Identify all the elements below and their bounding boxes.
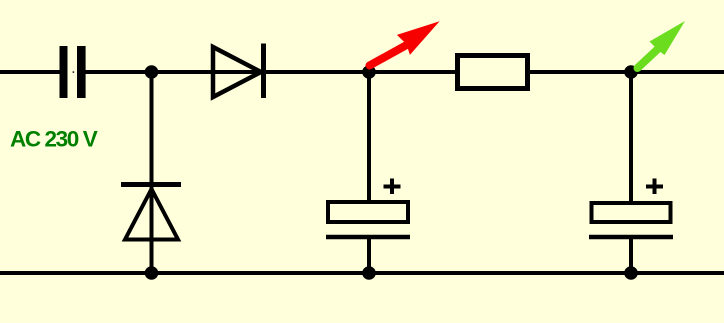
probe arrow green (output, regulated) — [638, 21, 686, 68]
wire top net: left segment to C1 — [0, 70, 60, 74]
capacitor C3 top plate — [592, 203, 671, 222]
resistor R1 — [458, 56, 528, 89]
capacitor C2 top plate — [328, 202, 408, 222]
wire top net: R1 to right edge — [530, 70, 724, 74]
diode D2 (vertical) cathode bar — [121, 182, 181, 187]
junction node bottom-left — [145, 266, 159, 280]
wire vertical C3 bottom lead — [629, 237, 633, 273]
capacitor C2 bottom plate — [326, 235, 410, 240]
junction node top-right — [624, 65, 638, 79]
diode D1 (horizontal) triangle — [213, 47, 261, 97]
svg-text:AC 230 V: AC 230 V — [10, 127, 98, 152]
wire vertical through D2 — [150, 72, 154, 273]
junction node top-left — [145, 65, 159, 79]
wire vertical C2 top lead — [367, 72, 371, 202]
diode D1 cathode bar — [261, 44, 266, 99]
wire bottom net — [0, 271, 724, 275]
wire top net: C1 to resistor R1 — [85, 70, 455, 74]
capacitor C1 (series, left plate) — [60, 46, 68, 98]
capacitor C2 plus sign — [384, 179, 401, 195]
junction node top-middle — [362, 65, 376, 79]
capacitor C3 plus sign — [646, 179, 663, 195]
junction node bottom-middle — [362, 266, 376, 280]
junction node bottom-right — [624, 266, 638, 280]
wire vertical C3 top lead — [629, 72, 633, 202]
wire vertical C2 bottom lead — [367, 237, 371, 273]
capacitor C3 bottom plate — [589, 235, 673, 240]
capacitor C1 (series, right plate) — [77, 46, 86, 98]
diode D2 triangle — [125, 189, 178, 240]
probe arrow red (input, unregulated) — [370, 21, 440, 65]
